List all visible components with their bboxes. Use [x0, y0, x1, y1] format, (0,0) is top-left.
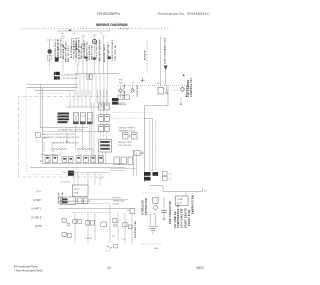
ice maker heater: [73, 113, 78, 125]
wire: [77, 90, 79, 107]
svg-text:EVAP FAN: EVAP FAN: [118, 103, 127, 106]
spare switch ladder: [72, 39, 77, 50]
wire bracket: [76, 65, 79, 66]
wire from heater: [75, 124, 77, 150]
ground symbol: [150, 229, 157, 234]
svg-text:J 4 •: J 4 •: [36, 192, 41, 194]
wire: [75, 74, 77, 96]
svg-text:SW CLOSE 25F: SW CLOSE 25F: [118, 145, 132, 147]
wire: [87, 74, 89, 96]
svg-text:WATER VALVE AUGER MOTOR: WATER VALVE AUGER MOTOR: [52, 142, 79, 145]
main connector block: [99, 140, 112, 153]
wire dashed tail: [49, 62, 51, 70]
svg-text:P 1 1: P 1 1: [106, 251, 110, 253]
wire: [106, 110, 108, 115]
svg-text:DEFROST HEATER: DEFROST HEATER: [119, 127, 136, 130]
svg-text:WHT BLU ORG GRY: WHT BLU ORG GRY: [100, 39, 102, 61]
svg-text:ICE MAKER MOD HTR MTR: ICE MAKER MOD HTR MTR: [58, 128, 83, 131]
wire: [53, 150, 55, 156]
terminal box: [78, 198, 83, 204]
svg-text:T1: T1: [169, 174, 171, 176]
compressor feed stub: [185, 192, 187, 197]
svg-text:THERMOSTAT: THERMOSTAT: [113, 199, 126, 202]
wire tick: [47, 39, 53, 41]
wire: [107, 42, 109, 74]
ice maker label block: [58, 113, 70, 124]
wire: [88, 199, 128, 201]
wire: [106, 90, 108, 103]
harness drop wires: [70, 90, 90, 107]
wire: [100, 122, 102, 125]
svg-text:460 OHM RS: 460 OHM RS: [174, 211, 177, 228]
wire: [131, 213, 133, 244]
connector blob: [55, 58, 59, 62]
wire: [82, 36, 84, 74]
svg-text:RUN CAPACITOR: RUN CAPACITOR: [169, 201, 172, 224]
left bus line B: [27, 87, 78, 89]
switch box S4: [81, 44, 85, 49]
wire: [62, 36, 64, 74]
wire: [117, 213, 119, 240]
svg-text:WIRING DIAGRAM: WIRING DIAGRAM: [96, 23, 128, 27]
lower rail: [62, 171, 110, 173]
wire: [100, 132, 102, 140]
feed line tap mark: [69, 29, 72, 31]
wire: [103, 122, 105, 125]
terminal boxes: [163, 172, 168, 176]
svg-text:YEL LT BLU RED: YEL LT BLU RED: [96, 40, 98, 59]
lower rail left: [42, 163, 125, 165]
cluster box with labels: [61, 197, 76, 205]
vertical pair wire: [133, 150, 135, 176]
stem comp: [166, 86, 168, 92]
svg-text:1 2 3 4 5 6 7 8 9 10 11 12 13: 1 2 3 4 5 6 7 8 9 10 11 12 13 14 15 16: [44, 134, 74, 136]
bus drop wires: [76, 74, 108, 103]
wire: [95, 74, 97, 103]
bus line bottom: [58, 208, 133, 210]
comp cluster a box: [62, 219, 66, 223]
top-left lamp branch: [47, 40, 53, 70]
comp cluster b box2: [78, 220, 82, 224]
ice maker bus: [66, 106, 104, 108]
svg-text:FPHS2386PF4: FPHS2386PF4: [97, 12, 120, 16]
sensor probe: [185, 86, 187, 96]
defrost control box: [73, 185, 89, 197]
dark terminal: [68, 171, 74, 176]
svg-text:AIR DAMPER: AIR DAMPER: [187, 79, 190, 97]
wire: [73, 90, 75, 107]
relay K1: [158, 88, 163, 95]
svg-text:GRN: GRN: [154, 248, 159, 250]
svg-text:18 RD: 18 RD: [35, 226, 42, 228]
svg-text:12 BLK *: 12 BLK *: [33, 200, 42, 202]
wire: [94, 213, 96, 240]
run capacitor C1: [163, 197, 165, 210]
dense connector blob: [112, 98, 119, 101]
splice mark: [93, 58, 96, 60]
mold thermostat: [36, 133, 41, 138]
wire: [87, 172, 89, 185]
heater terminal blocks: [144, 172, 151, 176]
svg-text:EVAP FAN: EVAP FAN: [123, 84, 126, 96]
rail segments: [110, 168, 136, 170]
svg-text:LIGHT SW: LIGHT SW: [137, 85, 139, 97]
wire: [69, 90, 71, 107]
svg-text:Publication No. 5995580643: Publication No. 5995580643: [158, 12, 209, 16]
corner harness wire: [145, 119, 153, 171]
svg-text:SENSOR: SENSOR: [144, 50, 146, 60]
svg-text:16 GRN 8: 16 GRN 8: [31, 218, 42, 220]
wire: [78, 40, 80, 65]
svg-text:T2: T2: [169, 179, 171, 181]
corner feed wire: [150, 186, 203, 192]
left bus line A: [27, 84, 78, 86]
comp cluster d box: [101, 222, 107, 227]
wire: [124, 213, 126, 244]
dotted separator rule: [22, 28, 170, 30]
terminal box: [83, 198, 88, 204]
compartment boundary dash-dot: [19, 97, 105, 177]
svg-text:DEFROST: DEFROST: [113, 197, 122, 199]
dashes: [171, 89, 178, 91]
door switch S2: [75, 46, 80, 52]
wire: [106, 122, 108, 125]
wire: [77, 66, 79, 74]
svg-text:W: W: [62, 33, 64, 35]
inter-row wires: [101, 110, 107, 140]
svg-text:L55-30F: L55-30F: [113, 203, 121, 205]
wire: [103, 90, 105, 103]
terminal box: [62, 157, 67, 163]
svg-text:EMBRACO EM: EMBRACO EM: [192, 195, 195, 214]
wire: [98, 38, 100, 74]
wire: [94, 35, 96, 74]
comp cluster c box: [86, 221, 90, 226]
wire: [107, 74, 109, 103]
svg-text:USER INTERFACE: USER INTERFACE: [111, 39, 114, 61]
connector pair row 1: [99, 103, 104, 110]
bottom vertical wires: [75, 204, 132, 244]
top component row wires: [61, 35, 108, 74]
svg-text:PROTECTOR: PROTECTOR: [146, 198, 148, 215]
lamp L4: [182, 86, 184, 88]
wire: [89, 90, 91, 107]
coil lead wires: [54, 150, 93, 156]
terminal tick: [202, 188, 204, 192]
ice maker drop wire: [40, 85, 88, 128]
svg-text:OVERLOAD: OVERLOAD: [141, 200, 144, 215]
wire: [78, 150, 80, 156]
middle connector stack wires: [98, 90, 107, 103]
wire tick: [81, 35, 85, 37]
long vertical supply wire: [160, 36, 162, 86]
wire from motor: [82, 124, 84, 150]
svg-text:4 1: 4 1: [73, 33, 76, 35]
connector pair row 2: [99, 115, 104, 122]
svg-text:FILL: FILL: [42, 134, 46, 136]
ice maker feed drop: [41, 88, 43, 164]
junction dot: [129, 135, 130, 136]
lower box a: [62, 233, 66, 237]
strip contacts: [46, 157, 102, 160]
wire: [87, 213, 89, 243]
faint dashes: [142, 192, 158, 194]
svg-text:T H M 4 6 V W B R G Y K: T H M 4 6 V W B R G Y K: [40, 155, 61, 157]
wire: [99, 175, 101, 186]
wire: [106, 132, 108, 140]
junction cross right: [140, 78, 144, 83]
svg-text:4 W 6 B: 4 W 6 B: [85, 238, 92, 240]
wire: [136, 152, 138, 176]
dotted riser: [26, 85, 28, 173]
comp cluster c box2: [91, 221, 95, 226]
heater terminal box: [123, 133, 129, 140]
wire: [103, 36, 105, 74]
harness dotted row lower: [112, 118, 153, 120]
svg-text:CONTROL BD: CONTROL BD: [115, 44, 117, 61]
svg-text:COMPRESSOR T1: COMPRESSOR T1: [178, 204, 180, 228]
coil winding left: [51, 148, 67, 150]
wire: [103, 74, 105, 103]
left bus line C: [34, 90, 75, 92]
pin box: [90, 74, 93, 79]
wire: [43, 142, 45, 152]
svg-text:1Ω2 4: 1Ω2 4: [74, 188, 80, 191]
lower rail left B: [30, 167, 125, 169]
svg-text:* Non-Illustrated Parts: * Non-Illustrated Parts: [14, 269, 43, 273]
bottom center drop wires: [74, 172, 100, 185]
light switch S3: [47, 56, 52, 61]
svg-text:TERMINATOR 120V: TERMINATOR 120V: [119, 129, 136, 132]
right bus wire dotted: [118, 85, 190, 87]
wire: [103, 132, 105, 140]
wire: [85, 150, 87, 156]
wire with dot: [66, 133, 68, 141]
wire: [74, 213, 76, 243]
dashed sensor wire: [146, 40, 148, 74]
coil winding right: [77, 148, 93, 150]
wire: [51, 142, 53, 152]
light harness wire: [149, 120, 151, 171]
wire squiggle over rule: [119, 28, 129, 30]
wire: [94, 172, 96, 185]
wire: [149, 214, 151, 227]
right section corner wire: [145, 86, 168, 182]
svg-text:BK WH RD YL OR BN GN TN GY BU: BK WH RD YL OR BN GN TN GY BU VT PK: [44, 137, 81, 139]
wire: [165, 70, 167, 86]
wire: [100, 90, 102, 103]
dashed bottom edge: [140, 243, 162, 245]
stack drop wires: [98, 152, 100, 164]
svg-text:1a: 1a: [36, 141, 38, 143]
dotted bottom row: [27, 174, 103, 176]
end terminal box: [130, 209, 135, 214]
svg-text:CONTROL 24V: CONTROL 24V: [190, 77, 193, 97]
harness dotted row upper: [112, 112, 153, 114]
wire: [73, 172, 75, 185]
comp cluster e box: [113, 219, 117, 223]
svg-text:1 L: 1 L: [100, 33, 103, 35]
main board connector block: [54, 72, 60, 75]
svg-text:19: 19: [107, 266, 111, 270]
wire: [148, 226, 159, 228]
wire: [75, 40, 77, 65]
start relay box: [153, 198, 158, 204]
connector strip row: [45, 156, 103, 163]
wire: [99, 74, 101, 103]
compressor motor: [154, 206, 158, 210]
wire tick: [102, 35, 106, 37]
ice maker motor: [80, 113, 85, 125]
comp cluster a motor: [67, 223, 70, 226]
svg-text:P1 P2 J4 J6 N2 E8: P1 P2 J4 J6 N2 E8: [62, 78, 78, 80]
wire: [49, 40, 51, 62]
svg-text:BRN PNK TAN O: BRN PNK TAN O: [103, 44, 106, 62]
dashed harness wire: [155, 120, 157, 171]
wire: [92, 150, 94, 156]
door switch S1: [62, 44, 66, 50]
terminator box: [132, 133, 138, 140]
wire: [97, 90, 99, 103]
wire: [83, 74, 85, 96]
splice mark: [108, 57, 111, 60]
wire: [79, 74, 81, 96]
comp cluster b box: [73, 220, 77, 224]
svg-text:LINE VOLTAGE 115V: LINE VOLTAGE 115V: [164, 37, 167, 64]
terminal box: [68, 157, 73, 163]
rail 2: [72, 212, 110, 214]
comp cluster f box2: [128, 225, 132, 229]
connector pair row 3: [99, 125, 104, 132]
splice mark: [85, 57, 88, 59]
long harness wire: [93, 102, 95, 164]
wire: [100, 110, 102, 115]
terminal boxes row: [114, 157, 120, 165]
wire from valve: [89, 124, 91, 150]
wire: [81, 90, 83, 107]
comp cluster e motor: [114, 224, 117, 227]
lower box a2: [67, 234, 71, 238]
connector arrow J1: [164, 66, 168, 71]
compressor terminal box: [176, 196, 189, 206]
svg-text:14 WHT 2: 14 WHT 2: [31, 209, 42, 211]
bottom tiny box: [114, 245, 118, 248]
short rail: [60, 181, 70, 183]
long harness wire: [91, 102, 93, 164]
condenser fan motor M1: [120, 86, 122, 89]
wire tick: [92, 34, 97, 36]
small box cluster upper right of stack: [118, 95, 123, 100]
wire: [86, 56, 88, 74]
top feed line: [57, 30, 111, 32]
svg-text:TUBE: TUBE: [42, 137, 48, 139]
stub wire with dot: [180, 98, 182, 104]
freezer light L2: [48, 49, 52, 54]
wire: [155, 215, 157, 227]
bus wire upper: [75, 73, 120, 75]
wire tick: [61, 35, 65, 37]
junction box: [134, 151, 140, 156]
svg-text:COMP: COMP: [177, 199, 183, 201]
ice maker valve: [87, 113, 92, 125]
wire: [77, 172, 79, 185]
fresh food light L1: [92, 39, 96, 43]
rail: [58, 203, 110, 205]
svg-text:05/12: 05/12: [196, 266, 204, 270]
svg-text:DEFROST LIMIT: DEFROST LIMIT: [118, 142, 133, 144]
svg-text:FREEZER FAN: FREEZER FAN: [134, 221, 137, 238]
wire: [91, 74, 93, 96]
wire: [85, 90, 87, 107]
lamp L3: [132, 86, 134, 89]
svg-text:TAN BLU TAN: TAN BLU TAN: [90, 44, 93, 60]
svg-text:[3 6]: [3 6]: [74, 193, 78, 195]
wire: [60, 150, 62, 156]
comp cluster f box: [123, 223, 127, 227]
wire: [109, 204, 111, 243]
mid rail: [42, 131, 105, 133]
svg-text:WHT WHT GR: WHT WHT GR: [108, 44, 110, 59]
svg-text:START 60HZ: START 60HZ: [188, 209, 191, 226]
pin box: [87, 74, 90, 79]
dotted neutral row: [37, 93, 72, 95]
bottom tiny squiggle: [106, 246, 112, 248]
svg-text:230V 60HZ PW: 230V 60HZ PW: [182, 208, 184, 228]
wire: [103, 110, 105, 115]
svg-text:START DEVICE: START DEVICE: [184, 208, 187, 228]
